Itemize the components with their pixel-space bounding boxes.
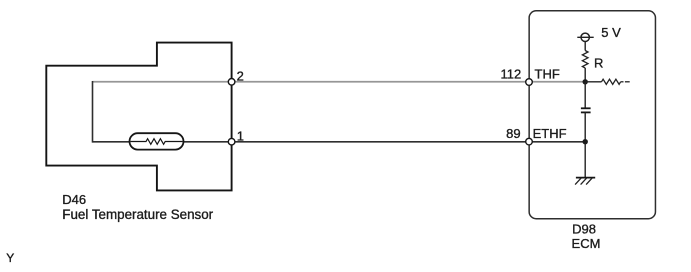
svg-text:89: 89: [506, 126, 520, 141]
ground: [575, 178, 595, 185]
svg-text:2: 2: [237, 68, 244, 83]
svg-text:1: 1: [237, 128, 244, 143]
pin 2 (connector): [228, 79, 235, 86]
svg-text:R: R: [594, 56, 603, 71]
junction node ETHF: [583, 139, 588, 144]
svg-text:ECM: ECM: [572, 236, 601, 251]
thermistor element (sensing element oval): [130, 133, 184, 149]
wire sensor internal vertical: [92, 81, 94, 143]
svg-text:THF: THF: [535, 66, 560, 81]
wire ETHF net (sensor pin 1 to ECM pin 89): [93, 141, 586, 143]
5V supply symbol: [577, 25, 621, 41]
pin 112 (ECM): [526, 79, 533, 86]
wire capacitor to ground: [584, 112, 586, 177]
svg-text:Fuel Temperature Sensor: Fuel Temperature Sensor: [62, 207, 213, 222]
pin 89 (ECM): [526, 138, 533, 145]
svg-text:D98: D98: [572, 222, 596, 237]
resistor (horizontal, to internal circuit): [585, 79, 630, 84]
svg-text:5 V: 5 V: [601, 25, 621, 40]
junction node THF: [583, 79, 588, 84]
svg-text:Y: Y: [6, 251, 14, 265]
wire THF net (sensor pin 2 to ECM pin 112, gray): [93, 81, 586, 83]
pin 1 (connector): [228, 138, 235, 145]
svg-text:112: 112: [500, 66, 521, 81]
ECM box D98: [529, 11, 655, 219]
wire junction to capacitor: [584, 82, 586, 109]
capacitor (inside ECM): [581, 108, 591, 112]
resistor R (vertical, inside ECM): [582, 42, 603, 82]
connector D46 outline: [46, 43, 231, 191]
svg-text:D46: D46: [62, 192, 86, 207]
svg-text:ETHF: ETHF: [533, 126, 567, 141]
